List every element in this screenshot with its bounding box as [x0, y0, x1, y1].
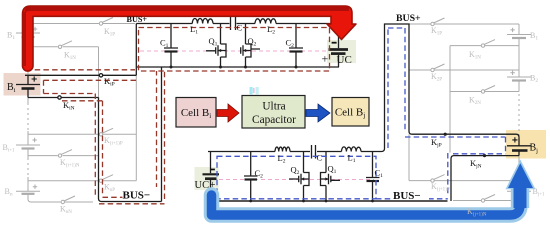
jpeg artifact marks above Ultra Capacitor box	[246, 87, 261, 112]
battery Bi	[16, 84, 40, 86]
svg-text:Cell Bj: Cell Bj	[335, 107, 365, 120]
switch K1N lever	[61, 41, 72, 46]
switch KnP lever	[102, 175, 113, 180]
battery B1 right	[507, 34, 531, 36]
bottom converter top rail	[208, 24, 519, 152]
battery B(j+1) right	[507, 190, 531, 192]
svg-text:C: C	[237, 23, 243, 33]
wire KjP corner down to Bj plus	[518, 137, 520, 146]
svg-text:+: +	[210, 180, 216, 191]
ultracapacitor UC bottom	[210, 152, 212, 197]
left string chain wire	[28, 16, 31, 202]
svg-text:Ultra: Ultra	[262, 101, 285, 113]
flow diagram red arrow	[217, 104, 239, 122]
svg-text:C: C	[317, 153, 323, 163]
switch K(i+1)N lever	[61, 150, 72, 155]
MOSFET Q1 bottom	[321, 152, 341, 202]
wire Bj minus to KjN	[451, 151, 519, 202]
switch K2N lever	[484, 86, 495, 91]
switch KiN contact	[58, 96, 61, 99]
inductor L2 bottom	[275, 147, 290, 151]
blue dashed highlight path right	[217, 28, 506, 199]
label UC bottom with polarity	[195, 169, 216, 191]
switch K1N right lever	[484, 40, 495, 45]
left BUS+ rail gray segment with switch K1P	[28, 23, 135, 25]
svg-text:UC: UC	[337, 54, 352, 66]
wire Bi plus to switch KiP	[25, 75, 136, 84]
highlight box bottom ultracapacitor UC	[195, 167, 219, 190]
gate drive dashed line bottom converter	[219, 179, 374, 181]
battery Bj	[507, 145, 531, 147]
label BUS- right	[392, 188, 429, 202]
top converter bottom rail	[137, 66, 339, 68]
wire Bi minus to switch KiN	[28, 89, 99, 98]
switch K(i+1)P lever	[102, 128, 113, 133]
left P-rail vertical	[135, 75, 137, 180]
capacitor C2 top	[289, 24, 303, 68]
red dashed highlight path left	[26, 28, 330, 204]
highlight box top ultracapacitor UC	[327, 40, 356, 63]
gray labels right string	[431, 26, 545, 218]
battery B(i+1)	[16, 144, 40, 146]
flow diagram box Cell Bi	[176, 98, 216, 128]
wire KiN down to BUS-	[99, 98, 162, 202]
switch K2N wire	[450, 91, 519, 93]
MOSFET Q1 top	[206, 24, 226, 68]
switch K(j+1)N lever	[484, 195, 495, 200]
switch K(i+1)P wire	[28, 133, 136, 135]
switch K2P wire	[409, 69, 519, 71]
switch K1N right wire	[450, 45, 519, 47]
series capacitor C bottom	[312, 145, 316, 159]
BUS+ rail right gray segment with switch K1P	[409, 23, 519, 25]
switch KiP contact	[99, 74, 102, 77]
inductor L1	[192, 18, 213, 23]
switch K(j+1)P lever	[434, 175, 445, 180]
left N-rail vertical	[98, 47, 100, 98]
top converter top rail	[136, 23, 339, 25]
switch K(j+1)N wire	[453, 200, 516, 202]
svg-text:BUS−: BUS−	[123, 190, 151, 202]
battery B1	[16, 32, 40, 34]
bottom converter bottom rail	[211, 200, 448, 202]
gate drive dashed line top converter	[140, 50, 326, 52]
switch KnN lever	[64, 196, 75, 201]
switch K1P right lever	[434, 18, 445, 23]
right string chain dotted omitted cells	[518, 94, 520, 136]
switch KnN wire	[31, 201, 93, 203]
thick blue arrow UC to Bj	[212, 160, 536, 216]
battery Bn	[16, 190, 40, 192]
svg-text:+: +	[322, 52, 329, 66]
svg-text:BUS−: BUS−	[393, 190, 421, 202]
highlight box battery Bj	[506, 130, 546, 159]
switch K(j+1)P wire	[409, 180, 519, 182]
thick red arrow Bi to UC	[23, 6, 357, 71]
capacitor C1 bottom	[366, 152, 380, 202]
svg-text:UC: UC	[195, 180, 210, 191]
switch K2P lever	[434, 64, 445, 69]
label UC top with polarity	[322, 42, 352, 66]
right string chain wire	[516, 24, 519, 201]
plus signs gray batteries	[32, 27, 514, 189]
switch K1N wire	[28, 46, 99, 48]
flow diagram box Cell Bj	[332, 98, 369, 127]
plus sign battery Bj	[512, 137, 517, 142]
switch K1P lever	[102, 18, 113, 23]
MOSFET Q2 bottom	[289, 152, 309, 202]
svg-text:BUS+: BUS+	[127, 15, 148, 24]
flow diagram box Ultra Capacitor	[242, 96, 305, 129]
switch K(i+1)N wire	[28, 155, 99, 157]
capacitor C1 top	[164, 24, 178, 68]
gray labels left string	[3, 27, 123, 215]
wire BUS- riser to converter bottom rail	[161, 67, 163, 202]
inductor L1 bottom	[342, 147, 362, 152]
capacitor C2 bottom	[244, 152, 258, 202]
flow diagram blue arrow	[306, 104, 330, 122]
switch contact circles gray	[58, 22, 484, 204]
svg-text:Capacitor: Capacitor	[252, 114, 296, 126]
plus sign battery Bi	[32, 76, 37, 81]
battery B2 right	[507, 76, 531, 78]
highlight box battery Bi	[4, 73, 41, 96]
wire KiP riser to BUS+	[135, 24, 137, 76]
switch KnP wire	[28, 180, 136, 182]
series capacitor C top	[231, 17, 236, 30]
right N-rail vertical	[449, 46, 451, 153]
ultracapacitor UC top	[338, 24, 340, 68]
svg-text:BUS+: BUS+	[396, 13, 421, 24]
label BUS- left	[123, 187, 158, 202]
right P-rail vertical below KjP	[408, 134, 410, 180]
svg-text:Cell Bi: Cell Bi	[181, 107, 211, 120]
inductor L2	[255, 19, 276, 24]
MOSFET Q2 top	[241, 24, 260, 68]
